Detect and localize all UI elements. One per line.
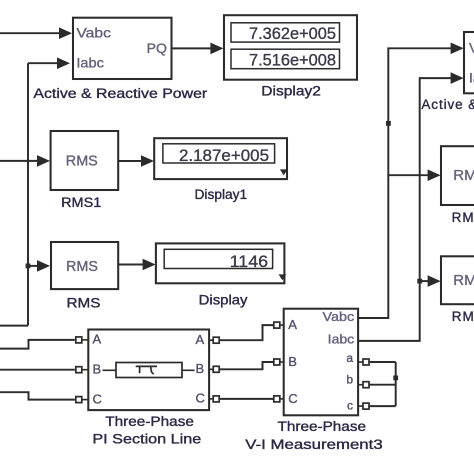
svg-text:Display1: Display1 bbox=[195, 187, 248, 202]
port square VI out b bbox=[363, 382, 369, 388]
port square VI out a bbox=[363, 359, 369, 365]
junction dot RMS branch bbox=[26, 264, 31, 269]
wire Vabc input to U1 bbox=[0, 32, 60, 34]
arrow into Display bbox=[143, 259, 156, 271]
pi symbol bbox=[136, 366, 157, 374]
svg-text:7.516e+008: 7.516e+008 bbox=[249, 51, 336, 70]
port square PI out A bbox=[213, 337, 219, 343]
svg-text:RMS: RMS bbox=[66, 258, 98, 275]
arrow into U2 Vabc bbox=[451, 43, 464, 55]
stub VI in B bbox=[280, 361, 284, 363]
arrow into RM2 bbox=[428, 275, 441, 287]
wire PI C to VI C bbox=[219, 398, 274, 400]
svg-text:b: b bbox=[346, 373, 353, 387]
svg-text:RMS: RMS bbox=[453, 167, 474, 184]
svg-text:PQ: PQ bbox=[147, 40, 167, 56]
wire RMS to Display bbox=[118, 264, 143, 266]
junction dot on Vabc line bbox=[386, 121, 391, 126]
block Display2 bbox=[224, 15, 357, 80]
wire PQ to Display2 bbox=[172, 47, 212, 49]
stub PI out C bbox=[209, 398, 213, 400]
svg-text:Vabc: Vabc bbox=[323, 309, 355, 324]
svg-text:C: C bbox=[288, 391, 297, 406]
wire Vabc from VI to top bbox=[358, 48, 462, 318]
svg-text:RMS: RMS bbox=[66, 153, 98, 170]
wire abc common vertical bbox=[395, 362, 397, 406]
svg-text:B: B bbox=[196, 361, 205, 376]
svg-text:Active & Reactive: Active & Reactive bbox=[421, 97, 474, 112]
stub PI in C bbox=[82, 399, 89, 401]
wire branch to RMS bbox=[28, 265, 38, 267]
port square PI in A bbox=[76, 337, 82, 343]
arrow into U2 Iabc bbox=[451, 72, 464, 84]
wire Iabc feed vertical bbox=[27, 63, 29, 325]
svg-text:Iabc: Iabc bbox=[469, 70, 474, 86]
stub PI out B bbox=[209, 368, 213, 370]
wire c to common bbox=[369, 405, 396, 407]
block RM2 (right, cut) bbox=[441, 256, 474, 304]
wire PI A to VI A bbox=[219, 325, 274, 340]
wire RMS1 to Display1 bbox=[118, 160, 142, 162]
stub VI in A bbox=[280, 324, 284, 326]
port square PI in B bbox=[76, 367, 82, 373]
svg-text:a: a bbox=[346, 351, 353, 365]
arrow into RM1 bbox=[428, 169, 441, 181]
block Three-Phase PI Section Line bbox=[88, 330, 209, 411]
stub VI out b bbox=[358, 384, 363, 386]
port square PI out B bbox=[213, 366, 219, 372]
svg-text:RMS: RMS bbox=[453, 272, 474, 289]
svg-text:c: c bbox=[347, 399, 353, 413]
svg-text:1146: 1146 bbox=[230, 252, 268, 271]
svg-text:C: C bbox=[196, 391, 205, 406]
port square VI in B bbox=[274, 359, 280, 365]
wire branch Vabc to RM1 bbox=[388, 174, 429, 176]
svg-text:Vabc: Vabc bbox=[469, 40, 474, 56]
svg-text:Three-Phase: Three-Phase bbox=[278, 419, 367, 434]
svg-text:C: C bbox=[93, 391, 102, 406]
wire PI input A entry bbox=[0, 340, 75, 349]
svg-text:Three-Phase: Three-Phase bbox=[105, 414, 194, 429]
port square PI in C bbox=[76, 397, 82, 403]
pi section icon box bbox=[103, 363, 195, 378]
block U1 Active & Reactive Power (left) bbox=[73, 18, 172, 79]
overflow triangle of Display bbox=[279, 274, 287, 280]
svg-text:RMS1: RMS1 bbox=[61, 195, 101, 210]
junction dot abc common bbox=[393, 376, 398, 381]
overflow triangle of Display1 bbox=[280, 169, 288, 175]
stub VI out a bbox=[358, 361, 363, 363]
block Display1 bbox=[154, 138, 287, 179]
stub PI in B bbox=[82, 369, 89, 371]
svg-text:RMS: RMS bbox=[67, 296, 101, 311]
svg-text:Display2: Display2 bbox=[261, 84, 321, 99]
svg-text:PI Section Line: PI Section Line bbox=[92, 431, 201, 446]
svg-text:Active & Reactive Power: Active & Reactive Power bbox=[33, 86, 207, 101]
svg-text:Display: Display bbox=[199, 292, 248, 307]
block RMS bbox=[51, 242, 118, 289]
wire input to RMS1 bbox=[0, 160, 38, 162]
wire b to common bbox=[369, 384, 396, 386]
svg-text:RMS3: RMS3 bbox=[452, 309, 474, 324]
wire a to common bbox=[369, 361, 396, 363]
wire Iabc from VI to top bbox=[358, 78, 461, 341]
wire Iabc into U1 bbox=[28, 62, 58, 64]
svg-text:2.187e+005: 2.187e+005 bbox=[179, 146, 269, 165]
junction dot on Iabc line bbox=[417, 279, 422, 284]
stub VI in C bbox=[280, 398, 284, 400]
stub PI out A bbox=[209, 339, 213, 341]
svg-text:7.362e+005: 7.362e+005 bbox=[249, 24, 336, 43]
svg-text:V-I Measurement3: V-I Measurement3 bbox=[245, 437, 382, 452]
wire Iabc feed bottom segment bbox=[0, 325, 28, 327]
svg-text:A: A bbox=[196, 332, 205, 347]
svg-text:Iabc: Iabc bbox=[76, 54, 104, 70]
port square PI out C bbox=[213, 396, 219, 402]
stub VI out c bbox=[358, 405, 363, 407]
wire PI B to VI B bbox=[219, 362, 274, 369]
arrow into U1 Iabc bbox=[57, 57, 70, 69]
svg-text:Iabc: Iabc bbox=[328, 332, 355, 347]
svg-text:A: A bbox=[93, 332, 102, 347]
block U2 Active & Reactive Power (right, cut) bbox=[464, 32, 474, 93]
arrow into RMS1 bbox=[37, 155, 50, 167]
arrow into Display1 bbox=[141, 155, 154, 167]
svg-text:A: A bbox=[288, 317, 297, 332]
svg-text:RMS2: RMS2 bbox=[452, 210, 474, 225]
wire branch Iabc to RM2 bbox=[420, 280, 429, 282]
arrow into U1 Vabc bbox=[59, 27, 72, 39]
port square VI in A bbox=[274, 322, 280, 328]
wire PI input B bbox=[0, 369, 75, 371]
svg-text:B: B bbox=[93, 362, 102, 377]
block Three-Phase V-I Measurement3 bbox=[284, 309, 358, 416]
port square VI out c bbox=[363, 403, 369, 409]
stub PI in A bbox=[82, 339, 89, 341]
arrow into RMS bbox=[37, 260, 50, 272]
port square VI in C bbox=[274, 396, 280, 402]
wire PI input C entry bbox=[0, 392, 75, 399]
arrow into Display2 bbox=[210, 43, 223, 55]
block RMS1 bbox=[51, 131, 119, 190]
block RM1 (right, cut) bbox=[441, 146, 474, 205]
svg-text:Vabc: Vabc bbox=[76, 25, 111, 41]
svg-text:B: B bbox=[288, 354, 297, 369]
block Display bbox=[156, 243, 285, 283]
